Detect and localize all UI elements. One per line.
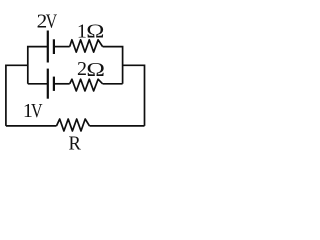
battery B1 short plate xyxy=(53,39,55,54)
label 2-ohm for resistor R2 xyxy=(77,58,105,80)
wire: left inner vertical with top branch left lead xyxy=(28,47,47,84)
label 1-ohm for resistor R1 xyxy=(77,19,105,42)
label 1V for battery B2 xyxy=(23,99,43,122)
battery B2 short plate xyxy=(53,77,55,91)
wire: right step and right outer vertical xyxy=(123,65,145,126)
wire: top branch right lead and right inner vertical xyxy=(103,47,123,84)
svg-text:V: V xyxy=(31,99,43,121)
wire: battery B2 right lead xyxy=(55,83,70,85)
wire: left step and left outer vertical xyxy=(6,65,28,126)
wire: bottom left lead xyxy=(6,125,57,127)
svg-text:R: R xyxy=(69,133,82,155)
label 2V for battery B1 xyxy=(37,10,58,33)
svg-text:Ω: Ω xyxy=(86,59,105,81)
resistor R1 1-ohm zigzag xyxy=(70,40,103,52)
wire: battery B1 right lead xyxy=(55,46,70,48)
resistor R zigzag xyxy=(57,119,90,131)
svg-text:V: V xyxy=(46,10,58,32)
wire: middle branch right lead xyxy=(103,83,123,85)
resistor R2 2-ohm zigzag xyxy=(70,79,103,91)
svg-text:Ω: Ω xyxy=(86,19,104,41)
wire: bottom right lead xyxy=(90,125,145,127)
battery B1 long plate xyxy=(47,31,49,63)
wire: middle branch left lead xyxy=(28,83,47,85)
battery B2 long plate xyxy=(47,69,49,99)
